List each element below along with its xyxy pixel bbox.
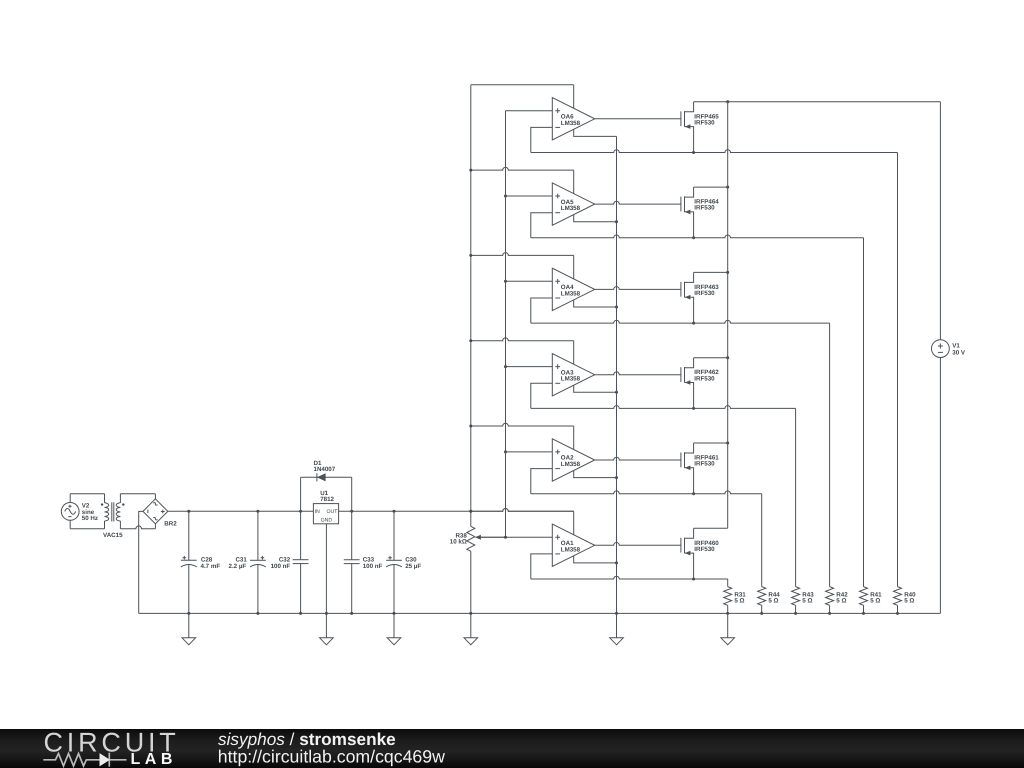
svg-text:LM358: LM358 xyxy=(561,461,581,468)
op-amp OA5 LM358 xyxy=(552,183,594,225)
wire V+ rail stage OA1 xyxy=(471,509,574,512)
svg-text:VAC15: VAC15 xyxy=(103,532,123,539)
junction xyxy=(615,220,618,223)
wire to resistor R40 xyxy=(897,153,899,587)
wire noninverting input OA1 xyxy=(480,536,552,538)
svg-text:30 V: 30 V xyxy=(952,349,966,356)
svg-text:LM358: LM358 xyxy=(561,205,581,212)
junction xyxy=(469,510,472,513)
capacitor C30 xyxy=(386,511,421,613)
wire source feedback rail OA3 xyxy=(531,406,796,409)
CircuitLab logo xyxy=(43,727,179,768)
op-amp OA2 LM358 xyxy=(552,439,594,481)
wire V+ pin OA2 xyxy=(573,426,575,450)
wire resistor to ground rail xyxy=(795,605,797,613)
junction xyxy=(299,612,302,615)
wire V+ pin OA4 xyxy=(573,255,575,279)
wire V+ pin OA5 xyxy=(573,170,575,194)
svg-text:LM358: LM358 xyxy=(561,546,581,553)
noninverting input bus xyxy=(505,111,507,538)
wire V2 top xyxy=(70,493,104,495)
ground xyxy=(616,613,618,637)
junction xyxy=(504,365,507,368)
svg-text:5 Ω: 5 Ω xyxy=(836,598,846,605)
junction xyxy=(299,510,302,513)
wire to resistor R44 xyxy=(761,494,763,587)
potentiometer R38 10k xyxy=(450,511,506,613)
main 12V rail xyxy=(168,509,574,512)
junction xyxy=(896,612,899,615)
wire output OA3 to gate xyxy=(595,372,681,375)
svg-text:IN: IN xyxy=(315,509,320,515)
wire stub to bridge top xyxy=(154,494,156,499)
n-MOSFET IRFP460 IRF530 xyxy=(681,528,719,579)
bottom ground rail xyxy=(139,612,941,614)
wire inverting input feedback OA2 xyxy=(531,469,553,494)
wire source feedback rail OA6 xyxy=(531,150,898,153)
wire V+ pin OA6 xyxy=(573,85,575,109)
wire resistor to ground rail xyxy=(863,605,865,613)
resistor R42 5 ohm xyxy=(826,587,849,606)
junction xyxy=(504,280,507,283)
junction xyxy=(615,306,618,309)
svg-text:50 Hz: 50 Hz xyxy=(82,515,98,522)
ground xyxy=(470,613,472,637)
junction xyxy=(726,442,729,445)
wire secondary top xyxy=(120,493,155,495)
junction xyxy=(692,578,695,581)
svg-text:LM358: LM358 xyxy=(561,376,581,383)
drain bus xyxy=(727,102,729,529)
junction xyxy=(692,407,695,410)
wire resistor to ground rail xyxy=(761,605,763,613)
junction xyxy=(469,510,472,513)
ground xyxy=(320,638,334,645)
wire V+ rail stage OA3 xyxy=(471,338,574,341)
svg-text:5 Ω: 5 Ω xyxy=(768,598,778,605)
wire noninverting input OA2 xyxy=(506,451,553,453)
wire drain rail IRFP465 xyxy=(694,101,941,103)
regulator U1 7812 xyxy=(313,490,338,524)
junction xyxy=(393,510,396,513)
junction xyxy=(469,254,472,257)
wire drain rail IRFP461 xyxy=(694,442,728,444)
op-amp OA3 LM358 xyxy=(552,354,594,396)
junction xyxy=(325,612,328,615)
svg-text:IRF530: IRF530 xyxy=(694,546,715,553)
wire V- pin OA5 xyxy=(574,215,617,222)
wire to resistor R31 xyxy=(727,579,729,587)
junction xyxy=(393,612,396,615)
capacitor C32 xyxy=(271,477,309,613)
junction xyxy=(469,425,472,428)
wire output OA2 to gate xyxy=(595,457,681,460)
op-amp OA4 LM358 xyxy=(552,268,594,310)
ground xyxy=(393,613,395,637)
wire V- pin OA2 xyxy=(574,471,617,478)
svg-text:LM358: LM358 xyxy=(561,290,581,297)
junction xyxy=(504,536,507,539)
junction xyxy=(469,169,472,172)
junction xyxy=(692,492,695,495)
svg-text:2.2 µF: 2.2 µF xyxy=(229,563,247,570)
junction xyxy=(350,612,353,615)
wire U1 GND xyxy=(325,524,327,638)
n-MOSFET IRFP461 IRF530 xyxy=(681,443,719,494)
junction xyxy=(504,450,507,453)
capacitor C31 xyxy=(229,511,266,613)
capacitor C33 xyxy=(344,477,383,613)
resistor R40 5 ohm xyxy=(894,587,917,606)
wire source feedback rail OA4 xyxy=(531,320,830,323)
resistor R31 5 ohm xyxy=(724,587,747,606)
svg-text:IRF530: IRF530 xyxy=(694,461,715,468)
wire drain rail IRFP462 xyxy=(694,357,728,359)
junction xyxy=(469,339,472,342)
wire to resistor R41 xyxy=(863,238,865,587)
svg-text:10 kΩ: 10 kΩ xyxy=(450,539,467,546)
svg-text:http://circuitlab.com/cqc469w: http://circuitlab.com/cqc469w xyxy=(218,747,445,767)
junction xyxy=(615,612,618,615)
svg-text:IRF530: IRF530 xyxy=(694,119,715,126)
wire drain rail IRFP464 xyxy=(694,186,728,188)
junction xyxy=(187,612,190,615)
wire inverting input feedback OA3 xyxy=(531,383,553,408)
bridge rectifier BR2 xyxy=(143,499,177,528)
wire resistor to ground rail xyxy=(829,605,831,613)
junction xyxy=(350,510,353,513)
wire noninverting input OA6 xyxy=(506,110,553,112)
svg-text:OUT: OUT xyxy=(326,509,338,515)
wire V2 bottom xyxy=(70,528,104,530)
wire V- pin OA3 xyxy=(574,385,617,392)
svg-text:7812: 7812 xyxy=(320,496,334,503)
wire secondary bottom xyxy=(120,526,155,529)
svg-text:IRF530: IRF530 xyxy=(694,375,715,382)
n-MOSFET IRFP462 IRF530 xyxy=(681,358,719,409)
wire V+ rail stage OA4 xyxy=(471,253,574,256)
junction xyxy=(726,100,729,103)
voltage source V2 sine 50 Hz xyxy=(61,494,98,529)
wire drain rail IRFP460 xyxy=(694,527,728,529)
wire inverting input feedback OA6 xyxy=(531,127,553,152)
junction xyxy=(469,612,472,615)
wire stub to bridge bottom xyxy=(154,524,156,529)
capacitor C28 xyxy=(181,511,220,613)
transformer VAC15 xyxy=(101,494,125,539)
wire inverting input feedback OA4 xyxy=(531,298,553,323)
wire noninverting input OA4 xyxy=(506,280,553,282)
wire V+ rail stage OA2 xyxy=(471,423,574,426)
resistor R44 5 ohm xyxy=(758,587,781,606)
junction xyxy=(726,271,729,274)
op-amp OA6 LM358 xyxy=(552,98,594,140)
junction xyxy=(692,236,695,239)
wire source feedback rail OA1 xyxy=(531,576,728,579)
wire V+ rail stage OA5 xyxy=(471,167,574,170)
svg-text:LAB: LAB xyxy=(131,751,177,768)
ground xyxy=(188,613,190,637)
svg-text:5 Ω: 5 Ω xyxy=(802,598,812,605)
wire resistor to ground rail xyxy=(727,605,729,613)
svg-text:GND: GND xyxy=(321,518,333,524)
wire inverting input feedback OA5 xyxy=(531,213,553,238)
svg-text:100 nF: 100 nF xyxy=(363,563,383,570)
svg-text:LM358: LM358 xyxy=(561,120,581,127)
wire output OA6 to gate xyxy=(595,118,681,120)
wire V- pin OA1 xyxy=(574,556,617,563)
footer bar xyxy=(0,729,1024,768)
junction xyxy=(794,612,797,615)
svg-text:5 Ω: 5 Ω xyxy=(870,598,880,605)
n-MOSFET IRFP464 IRF530 xyxy=(681,187,719,238)
svg-text:25 µF: 25 µF xyxy=(405,563,421,570)
junction xyxy=(726,186,729,189)
voltage source V1 30 V xyxy=(932,102,966,614)
svg-text:1N4007: 1N4007 xyxy=(314,466,336,473)
junction xyxy=(615,391,618,394)
op-amp OA1 LM358 xyxy=(552,524,594,566)
junction xyxy=(760,612,763,615)
svg-text:IRF530: IRF530 xyxy=(694,205,715,212)
wire V- pin OA6 xyxy=(574,129,617,136)
junction xyxy=(615,561,618,564)
svg-text:BR2: BR2 xyxy=(164,520,177,527)
wire to resistor R43 xyxy=(795,408,797,586)
junction xyxy=(828,612,831,615)
n-MOSFET IRFP465 IRF530 xyxy=(681,102,719,153)
junction xyxy=(692,151,695,154)
junction xyxy=(504,195,507,198)
op-amp supply bus xyxy=(470,85,472,512)
diode D1 1N4007 xyxy=(301,460,352,482)
junction xyxy=(615,476,618,479)
junction xyxy=(726,356,729,359)
wire output OA4 to gate xyxy=(595,287,681,290)
wire resistor to ground rail xyxy=(897,605,899,613)
wire V+ pin OA3 xyxy=(573,341,575,365)
ground below R31 xyxy=(727,613,729,637)
wire top supply rail xyxy=(471,84,574,86)
junction xyxy=(692,322,695,325)
junction xyxy=(862,612,865,615)
wire V- pin OA4 xyxy=(574,300,617,307)
wire V+ pin OA1 xyxy=(573,511,575,535)
n-MOSFET IRFP463 IRF530 xyxy=(681,272,719,323)
svg-text:4.7 mF: 4.7 mF xyxy=(201,563,221,570)
svg-text:100 nF: 100 nF xyxy=(271,563,291,570)
wire output OA5 to gate xyxy=(595,201,681,204)
junction xyxy=(256,510,259,513)
svg-text:IRF530: IRF530 xyxy=(694,290,715,297)
junction xyxy=(187,510,190,513)
svg-text:5 Ω: 5 Ω xyxy=(904,598,914,605)
resistor R41 5 ohm xyxy=(860,587,883,606)
wire bridge negative to bottom rail xyxy=(139,511,143,613)
wire noninverting input OA3 xyxy=(506,366,553,368)
wire inverting input feedback OA1 xyxy=(531,554,553,579)
op-amp ground bus xyxy=(616,136,618,613)
svg-text:5 Ω: 5 Ω xyxy=(734,598,744,605)
wire output OA1 to gate xyxy=(595,543,681,546)
resistor R43 5 ohm xyxy=(792,587,815,606)
wire source feedback rail OA5 xyxy=(531,235,864,238)
wire to resistor R42 xyxy=(829,323,831,586)
wire drain rail IRFP463 xyxy=(694,271,728,273)
junction xyxy=(726,612,729,615)
wire source feedback rail OA2 xyxy=(531,491,762,494)
junction xyxy=(256,612,259,615)
wire noninverting input OA5 xyxy=(506,195,553,197)
